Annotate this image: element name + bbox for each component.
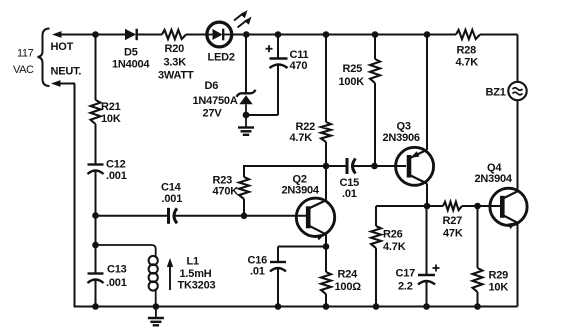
wire R29 bottom	[477, 292, 479, 307]
wire BZ1 to Q4 collector	[517, 100, 519, 191]
wire C11 bottom to D6 node	[277, 66, 279, 116]
wire to C13	[95, 245, 97, 274]
wire C14 left segment	[96, 215, 169, 217]
node bottom junction R24	[323, 303, 330, 310]
node top-rail junction at R25 branch	[372, 31, 379, 38]
wire bottom rail	[74, 306, 518, 308]
svg-text:LED2: LED2	[208, 52, 235, 64]
svg-text:4.7K: 4.7K	[290, 132, 313, 144]
svg-text:TK3203: TK3203	[178, 280, 216, 292]
svg-text:R28: R28	[457, 45, 477, 57]
svg-text:47K: 47K	[443, 228, 463, 240]
svg-text:2N3906: 2N3906	[383, 132, 420, 144]
node bottom junction R29	[474, 303, 481, 310]
wire R21 to C12	[95, 124, 97, 164]
wire R23 top to Q2 collector node	[243, 165, 326, 167]
resistor R29 10K	[473, 268, 509, 294]
svg-text:3.3K: 3.3K	[164, 57, 187, 69]
wire Q3 collector down	[426, 184, 428, 207]
wire C17 top	[426, 206, 428, 275]
zener diode D6 1N4750A 27V	[193, 80, 256, 120]
svg-text:.01: .01	[342, 188, 357, 200]
svg-text:Q3: Q3	[397, 121, 411, 133]
wire C17 bottom	[426, 282, 428, 307]
diode D5 1N4004	[112, 29, 150, 71]
capacitor C16 .01	[248, 255, 287, 278]
svg-text:R20: R20	[165, 43, 185, 55]
svg-text:2N3904: 2N3904	[282, 185, 320, 197]
resistor R26 4.7K	[371, 226, 406, 253]
svg-text:1.5mH: 1.5mH	[180, 268, 212, 280]
node top-rail junction at Q3 branch	[424, 31, 431, 38]
capacitor C13 .001	[88, 264, 127, 290]
svg-text:C17: C17	[396, 268, 416, 280]
inductor L1 1.5mH TK3203	[149, 256, 216, 307]
transistor Q3 2N3906	[383, 121, 434, 186]
svg-text:L1: L1	[187, 256, 200, 268]
svg-text:27V: 27V	[203, 108, 223, 120]
node Q3 collector junction	[424, 203, 431, 210]
resistor R21 10K	[91, 100, 121, 125]
wire R29 top	[477, 206, 479, 268]
svg-text:R21: R21	[101, 101, 121, 113]
capacitor C17 2.2 polarized	[396, 265, 440, 293]
svg-text:100Ω: 100Ω	[335, 281, 362, 293]
svg-text:NEUT.: NEUT.	[51, 66, 82, 78]
node top-rail junction at D6 branch	[243, 31, 250, 38]
wire Q3 base	[375, 165, 407, 167]
ground below D6	[238, 116, 254, 135]
resistor R20 3.3K 3WATT	[158, 30, 194, 81]
resistor R23 470K	[213, 175, 250, 200]
wire R26 bottom	[375, 248, 377, 307]
node R23 bottom junction	[241, 213, 248, 220]
node top-rail junction at R22 branch	[323, 31, 330, 38]
svg-text:4.7K: 4.7K	[383, 241, 406, 253]
resistor R28 4.7K	[456, 30, 481, 69]
svg-text:.01: .01	[250, 266, 265, 278]
transistor Q4 2N3904	[475, 162, 528, 229]
svg-text:D6: D6	[205, 80, 219, 92]
wire R23 top corner	[243, 166, 245, 177]
svg-text:C14: C14	[161, 182, 182, 194]
svg-text:VAC: VAC	[13, 64, 34, 76]
resistor R24 100 ohm	[321, 269, 361, 295]
wire C16 to bottom rail	[277, 269, 279, 307]
svg-text:100K: 100K	[339, 76, 365, 88]
node top-rail junction at R21 branch	[92, 31, 99, 38]
node L1 wire junction	[92, 242, 99, 249]
ground below L1	[148, 307, 164, 326]
wire C15 to Q3 base node	[352, 165, 375, 167]
svg-text:10K: 10K	[489, 282, 509, 294]
svg-text:R26: R26	[383, 229, 403, 241]
wire Q4 emitter down to bottom rail	[517, 223, 519, 307]
capacitor C14 .001	[161, 182, 182, 224]
svg-text:4.7K: 4.7K	[456, 57, 479, 69]
node bottom junction C17	[423, 303, 430, 310]
node R29 top junction	[474, 203, 481, 210]
svg-text:R24: R24	[338, 269, 359, 281]
node bottom junction C16	[275, 303, 282, 310]
svg-text:R27: R27	[443, 215, 463, 227]
svg-text:1N4004: 1N4004	[112, 59, 150, 71]
capacitor C11 470 polarized	[266, 45, 309, 72]
wire R24 bottom	[325, 294, 327, 307]
wire top rail HOT	[59, 34, 518, 36]
node L1 bottom junction	[153, 303, 160, 310]
node C14 wire left junction	[92, 212, 99, 219]
buzzer BZ1	[486, 82, 527, 100]
svg-text:2N3904: 2N3904	[475, 173, 513, 185]
wire Q2 emitter to C16	[278, 247, 326, 263]
capacitor C12 .001	[88, 159, 127, 183]
svg-text:BZ1: BZ1	[486, 87, 506, 99]
svg-text:R29: R29	[489, 270, 509, 282]
svg-text:117: 117	[17, 48, 34, 60]
node Q2 collector junction	[323, 163, 330, 170]
wire collector node to R26	[376, 206, 427, 226]
wire D6 branch from top rail	[245, 35, 247, 93]
wire C13 to bottom rail	[95, 280, 97, 307]
capacitor C15 .01	[340, 158, 360, 200]
svg-text:1N4750A: 1N4750A	[193, 95, 238, 107]
wire C14 right segment to Q2 base	[174, 215, 307, 217]
svg-text:C12: C12	[106, 159, 126, 171]
svg-text:3WATT: 3WATT	[158, 69, 194, 81]
wire R27 to Q4 base	[462, 205, 500, 207]
wire R22 bottom	[325, 142, 327, 166]
resistor R25 100K	[339, 59, 381, 88]
wire R23 bottom	[243, 199, 245, 216]
wire R25 branch from top rail	[374, 35, 376, 60]
wire D6 to C11 bottom	[246, 114, 278, 116]
svg-text:470K: 470K	[213, 186, 239, 198]
LED LED2 with light arrows	[207, 10, 252, 64]
node top-rail junction at C11 branch	[275, 31, 282, 38]
wire R24 top	[325, 247, 327, 273]
wire down to L1 node	[95, 216, 97, 246]
node Q2 emitter junction	[323, 243, 330, 250]
svg-text:.001: .001	[106, 170, 127, 182]
wire C11 branch from top rail	[277, 35, 279, 59]
svg-text:D5: D5	[124, 46, 138, 58]
wire R22 branch from top rail	[325, 35, 327, 123]
wire L1 top	[96, 245, 156, 256]
resistor R27 47K	[427, 202, 463, 240]
wire top rail corner down to BZ1	[517, 35, 519, 83]
node bottom junction R26	[373, 303, 380, 310]
resistor R22 4.7K	[290, 121, 332, 144]
svg-text:.001: .001	[162, 193, 183, 205]
wire Q2 emitter down	[325, 234, 327, 247]
wire to C15	[326, 165, 347, 167]
wire Q3 emitter up to top rail	[426, 35, 428, 151]
svg-text:2.2: 2.2	[398, 281, 413, 293]
svg-text:470: 470	[290, 60, 308, 72]
wire Q2 collector up	[325, 166, 327, 201]
svg-text:C13: C13	[107, 264, 127, 276]
wire HOT lead with arrow	[51, 31, 74, 53]
AC source 117 VAC brace	[38, 29, 50, 87]
wire R21 branch from top rail	[95, 35, 97, 101]
wire NEUT lead with arrow	[51, 66, 82, 87]
svg-text:HOT: HOT	[51, 41, 74, 53]
node D6 anode junction	[243, 112, 250, 119]
svg-text:10K: 10K	[101, 113, 121, 125]
node bottom junction C13	[92, 303, 99, 310]
wire C12 to C14 node	[95, 171, 97, 216]
node Q3 base junction	[371, 163, 378, 170]
transistor Q2 2N3904	[282, 174, 335, 241]
svg-text:R25: R25	[343, 63, 363, 75]
wire R25 bottom to Q3 base node	[374, 83, 376, 166]
wire NEUT rail down left side	[74, 84, 76, 307]
label 117 VAC	[13, 48, 34, 77]
svg-text:.001: .001	[106, 277, 127, 289]
